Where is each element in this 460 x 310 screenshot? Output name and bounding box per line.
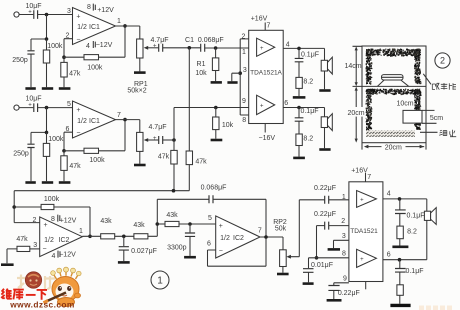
svg-text:6: 6 <box>66 126 70 133</box>
svg-text:1: 1 <box>342 194 346 201</box>
svg-text:−12V: −12V <box>59 252 76 259</box>
svg-text:0.068μF: 0.068μF <box>198 37 224 44</box>
svg-text:+16V: +16V <box>351 168 368 175</box>
svg-text:+: + <box>153 136 157 142</box>
svg-text:IC1: IC1 <box>89 118 100 125</box>
svg-text:+: + <box>76 107 80 114</box>
svg-text:R1: R1 <box>197 61 206 68</box>
svg-text:3: 3 <box>243 67 247 74</box>
svg-text:0.068μF: 0.068μF <box>201 185 227 192</box>
svg-text:5: 5 <box>208 215 212 222</box>
svg-text:3: 3 <box>33 242 37 249</box>
svg-text:14cm: 14cm <box>344 63 361 70</box>
svg-text:100k: 100k <box>87 65 103 72</box>
svg-text:7: 7 <box>267 23 271 30</box>
svg-text:1: 1 <box>157 275 163 286</box>
svg-text:TDA1521: TDA1521 <box>350 228 378 235</box>
svg-text:3: 3 <box>67 8 71 15</box>
svg-text:5: 5 <box>67 101 71 108</box>
svg-text:50k: 50k <box>275 226 287 233</box>
svg-text:8.2: 8.2 <box>303 78 313 85</box>
svg-text:0.22μF: 0.22μF <box>314 185 336 192</box>
svg-text:+: + <box>153 44 157 50</box>
svg-text:7: 7 <box>258 228 262 235</box>
svg-text:1/2: 1/2 <box>77 24 87 31</box>
svg-text:43k: 43k <box>166 212 178 219</box>
svg-text:100k: 100k <box>47 43 63 50</box>
svg-text:+: + <box>28 103 32 109</box>
svg-text:4: 4 <box>52 253 56 260</box>
svg-text:www.dzsc.com: www.dzsc.com <box>9 300 75 310</box>
svg-text:2: 2 <box>341 218 345 225</box>
svg-text:9: 9 <box>242 98 246 105</box>
svg-text:6: 6 <box>207 241 211 248</box>
svg-text:43k: 43k <box>133 222 145 229</box>
svg-text:3: 3 <box>342 233 346 240</box>
svg-text:2: 2 <box>33 217 37 224</box>
svg-text:10k: 10k <box>222 122 234 129</box>
svg-text:1/2: 1/2 <box>77 118 87 125</box>
svg-text:7: 7 <box>117 112 121 119</box>
svg-text:8.2: 8.2 <box>407 228 417 235</box>
svg-text:50k×2: 50k×2 <box>127 88 146 95</box>
svg-text:C1: C1 <box>185 37 194 44</box>
svg-text:−12V: −12V <box>96 42 113 49</box>
svg-text:IC2: IC2 <box>59 237 70 244</box>
svg-text:10μF: 10μF <box>25 95 41 102</box>
svg-text:250p: 250p <box>12 57 28 64</box>
svg-text:+: + <box>76 13 80 20</box>
svg-text:8: 8 <box>51 216 55 223</box>
svg-text:5cm: 5cm <box>430 115 443 122</box>
svg-text:4: 4 <box>86 43 90 50</box>
svg-text:1: 1 <box>242 49 246 56</box>
svg-text:47k: 47k <box>158 153 170 160</box>
svg-text:2: 2 <box>66 32 70 39</box>
svg-text:8: 8 <box>242 117 246 124</box>
svg-text:0.22μF: 0.22μF <box>338 290 360 297</box>
svg-text:47k: 47k <box>69 71 81 78</box>
svg-text:47k: 47k <box>69 163 81 170</box>
svg-text:2: 2 <box>242 33 246 40</box>
svg-text:1/2: 1/2 <box>220 235 230 242</box>
svg-text:0.1μF: 0.1μF <box>405 268 423 275</box>
svg-text:0.1μF: 0.1μF <box>300 108 318 115</box>
svg-text:−: − <box>43 246 47 253</box>
svg-text:6: 6 <box>387 251 391 258</box>
svg-text:0.027μF: 0.027μF <box>131 248 157 255</box>
svg-text:−: − <box>219 248 223 255</box>
svg-text:8: 8 <box>342 250 346 257</box>
svg-text:0.22μF: 0.22μF <box>314 211 336 218</box>
svg-text:+: + <box>260 104 264 110</box>
svg-text:+: + <box>260 46 264 52</box>
svg-text:8: 8 <box>87 4 91 11</box>
svg-text:8.2: 8.2 <box>303 136 313 143</box>
svg-text:+16V: +16V <box>251 15 268 22</box>
svg-text:43k: 43k <box>100 218 112 225</box>
svg-text:4: 4 <box>387 191 391 198</box>
svg-text:−: − <box>76 130 80 137</box>
svg-text:2: 2 <box>440 56 445 66</box>
svg-text:+: + <box>219 223 223 230</box>
svg-text:+12V: +12V <box>97 7 114 14</box>
svg-text:+: + <box>44 222 48 229</box>
svg-text:IC2: IC2 <box>233 235 244 242</box>
svg-text:7: 7 <box>367 174 371 181</box>
svg-text:250p: 250p <box>13 151 29 158</box>
svg-text:10cm: 10cm <box>396 101 413 108</box>
svg-text:47k: 47k <box>195 159 207 166</box>
svg-text:+: + <box>28 9 32 15</box>
svg-text:1/2: 1/2 <box>44 237 54 244</box>
svg-text:−16V: −16V <box>259 135 276 142</box>
svg-text:1: 1 <box>79 228 83 235</box>
svg-text:−: − <box>76 36 80 43</box>
svg-text:TDA1521A: TDA1521A <box>250 69 282 76</box>
svg-text:0.1μF: 0.1μF <box>406 213 424 220</box>
svg-text:0.01μF: 0.01μF <box>311 262 333 269</box>
svg-text:47k: 47k <box>16 236 28 243</box>
svg-text:20cm: 20cm <box>385 145 402 152</box>
svg-text:1: 1 <box>117 18 121 25</box>
svg-text:0.1μF: 0.1μF <box>301 51 319 58</box>
svg-text:100k: 100k <box>44 196 60 203</box>
svg-text:4: 4 <box>286 42 290 49</box>
svg-text:100k: 100k <box>89 157 105 164</box>
svg-text:IC1: IC1 <box>89 24 100 31</box>
svg-text:100k: 100k <box>48 136 64 143</box>
svg-text:6: 6 <box>284 100 288 107</box>
svg-text:+: + <box>360 257 364 263</box>
svg-text:+12V: +12V <box>60 218 77 225</box>
svg-text:4.7μF: 4.7μF <box>148 124 166 131</box>
svg-text:3300p: 3300p <box>167 245 187 252</box>
svg-text:10k: 10k <box>195 70 207 77</box>
svg-text:+: + <box>360 197 364 203</box>
svg-text:9: 9 <box>343 276 347 283</box>
svg-text:20cm: 20cm <box>347 110 364 117</box>
